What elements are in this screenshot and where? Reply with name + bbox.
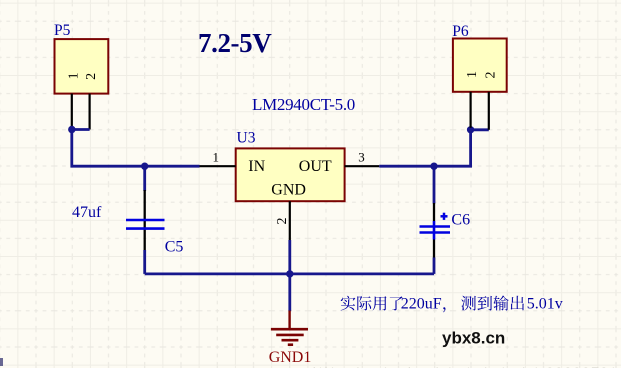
svg-text:C5: C5 — [165, 238, 184, 255]
svg-text:OUT: OUT — [299, 158, 332, 175]
wire junction down to C5 — [143, 166, 146, 191]
svg-text:ybx8.cn: ybx8.cn — [442, 329, 505, 348]
svg-text:47uf: 47uf — [72, 204, 102, 221]
svg-text:P6: P6 — [452, 23, 469, 40]
svg-text:5.01v: 5.01v — [527, 296, 563, 313]
wire C5 down to ground rail — [143, 250, 146, 274]
wire P5 down and right to U3 pin 1 — [72, 130, 200, 167]
svg-text:C6: C6 — [451, 212, 470, 229]
wire junction down to C6 — [433, 166, 436, 203]
svg-text:IN: IN — [248, 158, 265, 175]
connector P6 body — [453, 39, 507, 92]
junction under P6 — [467, 126, 474, 133]
connector P5 body — [55, 39, 109, 94]
svg-text:U3: U3 — [237, 130, 256, 147]
wire ground rail down to ground symbol — [288, 274, 291, 311]
op-amp U3 body (LM2940 regulator) — [236, 148, 345, 201]
svg-text:2: 2 — [483, 72, 498, 79]
P5 pin 1 — [67, 72, 82, 127]
capacitor C5 — [126, 190, 165, 251]
wire P5 pin2 to pin1 stub — [72, 128, 90, 131]
P5 pin 2 — [84, 73, 99, 130]
junction under P5 — [68, 126, 75, 133]
svg-text:1: 1 — [213, 150, 220, 165]
svg-text:1: 1 — [465, 71, 480, 78]
P6 pin 1 — [465, 71, 480, 128]
wire C6 down to ground rail — [433, 258, 436, 274]
wire U3 pin2 to ground rail — [288, 240, 291, 274]
U3 pin 3 — [345, 150, 380, 167]
svg-text:GND: GND — [271, 182, 306, 199]
svg-text:3: 3 — [358, 150, 365, 165]
svg-text:GND1: GND1 — [269, 349, 312, 366]
svg-text:LM2940CT-5.0: LM2940CT-5.0 — [252, 95, 355, 114]
svg-text:2: 2 — [84, 73, 99, 80]
ground GND1 symbol — [271, 311, 308, 345]
U3 pin 2 — [275, 201, 290, 241]
U3 pin 1 — [200, 150, 236, 167]
wire ground rail C5 to C6 — [145, 272, 434, 275]
wire U3 pin3 right and up to P6 — [379, 130, 489, 166]
junction at ground rail center — [286, 270, 293, 277]
P6 pin 2 — [483, 72, 498, 130]
capacitor C6 (polarized) — [420, 203, 451, 258]
junction at C5 tap — [141, 163, 148, 170]
junction at C6 tap — [430, 163, 437, 170]
svg-text:P5: P5 — [54, 22, 71, 39]
svg-text:2: 2 — [275, 218, 290, 225]
svg-text:1: 1 — [67, 72, 82, 79]
svg-text:220uF: 220uF — [401, 296, 442, 313]
svg-text:7.2-5V: 7.2-5V — [198, 28, 272, 58]
annotation note: actually used 220uF, measured 5.01v output — [341, 295, 563, 312]
